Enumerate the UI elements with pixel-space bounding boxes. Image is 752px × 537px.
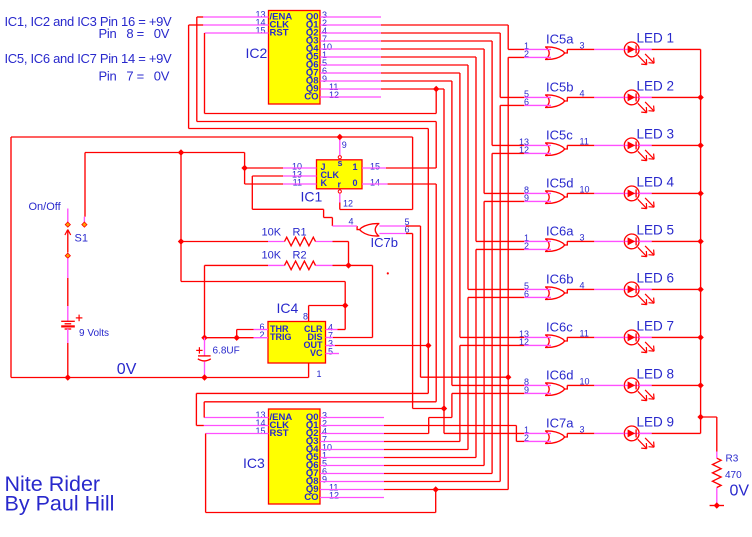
- R1 label 10K: [262, 227, 282, 239]
- wire IC1 J K tie: [245, 153, 317, 185]
- IC5c input pin number 13: [519, 137, 529, 147]
- wire IC4 pin1 ground: [308, 363, 310, 378]
- IC1 pin number 11: [293, 178, 302, 188]
- resistor R1: [285, 237, 316, 246]
- wire IC4 OUT: [326, 345, 429, 347]
- wire IC2 Q0 stub: [320, 16, 381, 18]
- IC2 pin number 14: [256, 18, 266, 28]
- IC6a label: [546, 223, 574, 238]
- IC6d output pin number 10: [580, 376, 590, 386]
- IC2 box: [269, 11, 321, 105]
- junction IC7b pin5 tap: [505, 374, 511, 380]
- wire IC3 RST pin15: [206, 434, 436, 513]
- svg-text:0: 0: [352, 178, 357, 188]
- IC2 pin name Q1: [306, 20, 319, 31]
- IC2 pin name Q8: [306, 76, 319, 87]
- IC3 pin name CLK: [270, 420, 290, 431]
- LED 1 label: [637, 30, 675, 45]
- svg-text:10K: 10K: [262, 227, 282, 239]
- svg-text:1: 1: [352, 162, 357, 172]
- svg-text:IC6b: IC6b: [546, 271, 573, 286]
- wire R2 leads: [205, 265, 373, 337]
- junction rail R3 tap: [697, 414, 703, 420]
- wire clock net vertical: [196, 129, 428, 426]
- IC2 pin number 2: [322, 18, 327, 28]
- svg-text:4: 4: [349, 217, 354, 227]
- or-gate IC5c: [545, 143, 567, 156]
- IC3 label: [243, 455, 265, 471]
- IC4 pin number 8: [303, 312, 308, 322]
- svg-text:R1: R1: [293, 227, 307, 239]
- IC2 pin name Q9: [306, 84, 319, 95]
- IC5a label: [546, 31, 574, 46]
- svg-text:CO: CO: [304, 492, 318, 503]
- IC3 pin name Q7: [306, 468, 319, 479]
- IC7b input pin number 6: [405, 225, 410, 235]
- svg-text:LED 7: LED 7: [637, 318, 675, 333]
- IC6b input pin number 5: [524, 281, 529, 291]
- svg-text:IC5a: IC5a: [546, 31, 574, 46]
- wire switched 9V rail: [84, 153, 244, 223]
- junction rail LED5: [697, 238, 703, 244]
- IC4 pin number 3: [328, 339, 333, 349]
- IC3 pin number 12: [329, 491, 339, 501]
- junction switched rail: [178, 149, 184, 155]
- IC1 pin name J: [321, 162, 326, 172]
- svg-text:IC5, IC6 and IC7 Pin 14 = +9V: IC5, IC6 and IC7 Pin 14 = +9V: [5, 51, 173, 66]
- IC2 pin name CO: [304, 92, 318, 103]
- IC2 pin name Q7: [306, 68, 319, 79]
- IC7b label: [371, 235, 398, 250]
- IC1 pin number 10: [292, 162, 302, 172]
- IC6a output pin number 3: [580, 232, 585, 242]
- R2 label 10K: [262, 250, 282, 262]
- or-gate IC5a: [545, 47, 567, 60]
- IC3 pin number 5: [322, 459, 327, 469]
- wire IC2 Q5 to IC6a: [320, 57, 551, 241]
- battery label 9 Volts: [79, 328, 109, 339]
- IC4 label: [277, 300, 299, 316]
- wire IC1 set pin9: [339, 138, 341, 155]
- wire right supply rail: [700, 49, 702, 433]
- IC6c input pin number 12: [519, 337, 529, 347]
- svg-text:15: 15: [256, 426, 266, 436]
- IC4 box: [268, 322, 326, 364]
- junction rail LED3: [697, 142, 703, 148]
- IC5d input pin number 9: [524, 193, 529, 203]
- IC6c output pin number 11: [580, 328, 589, 338]
- capacitor C1 plates: [198, 356, 211, 361]
- svg-text:IC5d: IC5d: [546, 175, 573, 190]
- junction rail LED4: [697, 190, 703, 196]
- junction rail LED8: [697, 382, 703, 388]
- battery plus sign: [76, 315, 83, 322]
- IC2 pin number 9: [322, 74, 327, 84]
- LED 2 label: [637, 78, 675, 93]
- IC4 pin name THR: [270, 324, 289, 334]
- or-gate IC5b: [545, 95, 567, 108]
- wire 0V bottom rail: [11, 377, 309, 379]
- wire R3 branch: [701, 417, 717, 506]
- LED 6 label: [637, 270, 675, 285]
- wire IC3 Q9 to IC5a: [320, 57, 551, 489]
- wire IC3 Q5 to IC6a: [320, 249, 551, 457]
- IC3 pin number 2: [322, 419, 327, 429]
- IC4 pin name OUT: [304, 340, 324, 350]
- IC3 pin name Q8: [306, 476, 319, 487]
- wire IC2 Q3 to IC5c: [320, 41, 551, 145]
- IC2 pin name Q5: [306, 52, 319, 63]
- or-gate IC6b: [545, 287, 567, 300]
- IC5b output pin number 4: [580, 88, 585, 98]
- wire IC4 VC stub: [326, 353, 340, 355]
- svg-text:LED 6: LED 6: [637, 270, 675, 285]
- junction rail LED7: [697, 334, 703, 340]
- label 0V at R3: [730, 483, 750, 500]
- IC3 pin name Q6: [306, 460, 319, 471]
- svg-text:9: 9: [342, 140, 347, 150]
- IC5c output pin number 11: [580, 136, 589, 146]
- svg-text:R2: R2: [293, 250, 307, 262]
- or-gate IC6d: [545, 383, 567, 396]
- IC2 pin name Q0: [306, 12, 319, 23]
- IC4 pin number 1: [317, 369, 322, 379]
- IC3 pin name Q5: [306, 452, 319, 463]
- wire IC2 /ENA pin13: [197, 17, 436, 168]
- resistor R2: [285, 261, 316, 270]
- R1 label: [293, 227, 307, 239]
- IC4 pin name TRIG: [270, 332, 292, 342]
- wire capacitor top lead: [204, 338, 206, 356]
- LED 2 symbol: [624, 90, 654, 113]
- IC1 pin name CLK: [321, 170, 340, 180]
- IC4 pin number 2: [259, 330, 264, 340]
- svg-text:On/Off: On/Off: [29, 201, 62, 213]
- IC1 set pin bubble: [338, 156, 341, 159]
- LED 3 label: [637, 126, 675, 141]
- svg-text:5: 5: [328, 347, 333, 357]
- svg-text:9: 9: [322, 475, 327, 485]
- junction rail LED6: [697, 286, 703, 292]
- svg-text:RST: RST: [270, 428, 289, 439]
- svg-text:IC1: IC1: [301, 189, 323, 205]
- IC2 pin number 13: [256, 10, 266, 20]
- wire IC7b input pin5: [379, 226, 508, 377]
- IC2 pin number 3: [322, 10, 327, 20]
- label 0V battery: [117, 361, 137, 378]
- or-gate IC6a: [545, 239, 567, 252]
- LED 7 symbol: [624, 330, 654, 353]
- wire IC2 Q7 to IC6c: [320, 73, 551, 337]
- junction IC1 J: [241, 165, 247, 171]
- wire R junction to DIS: [372, 265, 374, 337]
- wire IC1 reset pin12: [340, 137, 413, 210]
- junction IC4 pin8 Vcc: [342, 302, 348, 308]
- wire battery bottom lead: [67, 329, 69, 378]
- IC4 pin number 4: [328, 323, 333, 333]
- svg-text:S1: S1: [75, 233, 88, 245]
- svg-text:14: 14: [370, 178, 380, 188]
- junction THR TRIG: [234, 335, 240, 341]
- IC6c label: [546, 319, 573, 334]
- IC1 pin name 0: [352, 178, 357, 188]
- wire IC3 Q1 to IC7a: [320, 426, 551, 442]
- svg-text:IC7a: IC7a: [546, 415, 574, 430]
- IC4 pin name DIS: [307, 332, 322, 342]
- svg-text:IC6c: IC6c: [546, 319, 573, 334]
- or-gate IC7a: [545, 431, 567, 444]
- LED 6 symbol: [624, 282, 654, 305]
- IC6b output pin number 4: [580, 280, 585, 290]
- IC6c input pin number 13: [519, 329, 529, 339]
- note power pins text line 2: [99, 26, 170, 41]
- wire IC1 CLK pin13: [252, 176, 332, 226]
- wire IC4 DIS: [326, 337, 373, 339]
- IC6d input pin number 8: [524, 377, 529, 387]
- IC5c label: [546, 127, 573, 142]
- R2 label: [293, 250, 307, 262]
- svg-text:12: 12: [329, 90, 339, 100]
- svg-text:0V: 0V: [730, 483, 750, 500]
- svg-text:s: s: [338, 158, 343, 168]
- svg-text:9 Volts: 9 Volts: [79, 328, 109, 339]
- IC2 pin name Q4: [306, 44, 319, 55]
- svg-text:By Paul Hill: By Paul Hill: [5, 492, 115, 516]
- IC7b output pin number 4: [349, 217, 354, 227]
- IC6b input pin number 6: [524, 289, 529, 299]
- wire R1 leads: [181, 242, 349, 266]
- R3 value 470: [725, 470, 742, 481]
- svg-text:IC2: IC2: [246, 45, 268, 61]
- wire LED 6 row: [567, 288, 700, 290]
- IC5c input pin number 12: [519, 145, 529, 155]
- junction TRIG cap R2: [201, 335, 207, 341]
- S1 On/Off stub: [67, 209, 69, 223]
- IC3 pin number 11: [329, 483, 338, 493]
- IC2 pin number 11: [329, 82, 338, 92]
- svg-text:8: 8: [303, 312, 308, 322]
- svg-text:9: 9: [322, 74, 327, 84]
- IC5a input pin number 2: [524, 49, 529, 59]
- IC6a input pin number 1: [524, 233, 529, 243]
- LED 4 symbol: [624, 186, 654, 209]
- svg-text:IC7b: IC7b: [371, 235, 398, 250]
- svg-text:Pin 7 = 0V: Pin 7 = 0V: [99, 69, 170, 84]
- IC2 pin number 7: [322, 34, 327, 44]
- wire IC2 CLK pin14: [189, 25, 429, 129]
- wire LED 2 row: [567, 96, 700, 98]
- wire IC3 Q4 to IC6b: [320, 297, 551, 449]
- wire IC1 Q pin15 to IC2 /ENA: [362, 167, 436, 169]
- junction IC2 Q9 IC7b: [441, 405, 447, 411]
- IC2 pin number 5: [322, 58, 327, 68]
- svg-text:RST: RST: [270, 28, 289, 39]
- IC5d output pin number 10: [580, 184, 590, 194]
- stray dot: [387, 272, 389, 274]
- svg-text:IC4: IC4: [277, 300, 299, 316]
- IC2 pin name Q2: [306, 28, 319, 39]
- IC3 pin number 6: [322, 467, 327, 477]
- wire IC2 Q9 to IC7a: [320, 89, 551, 433]
- IC1 pin name 1: [352, 162, 357, 172]
- LED 1 symbol: [624, 42, 654, 65]
- wire IC3 Q7 to IC5c: [320, 153, 551, 473]
- IC6b label: [546, 271, 573, 286]
- IC5a output pin number 3: [580, 40, 585, 50]
- wire IC2 CO stub: [320, 96, 381, 98]
- svg-text:1: 1: [317, 369, 322, 379]
- capacitor label 6.8UF: [213, 346, 240, 357]
- svg-text:2: 2: [259, 330, 264, 340]
- svg-text:VC: VC: [310, 348, 323, 358]
- or-gate IC5d: [545, 191, 567, 204]
- IC2 pin name Q6: [306, 60, 319, 71]
- junction capacitor 0V: [201, 374, 207, 380]
- wire IC3 Q0 stub: [320, 417, 384, 419]
- IC1 box: [317, 160, 363, 189]
- wire IC3 Q6 to IC5d: [320, 201, 551, 465]
- svg-text:IC5c: IC5c: [546, 127, 573, 142]
- svg-text:Pin 8 = 0V: Pin 8 = 0V: [99, 26, 170, 41]
- or-gate IC7b: [357, 224, 379, 237]
- LED 7 label: [637, 318, 675, 333]
- switch S1 lever: [65, 230, 71, 253]
- wire IC4 pin8 riser: [309, 306, 346, 322]
- junction R1 left: [178, 238, 184, 244]
- IC3 box: [269, 409, 321, 504]
- wire IC3 Q8 to IC5b: [320, 105, 551, 481]
- IC6d input pin number 9: [524, 385, 529, 395]
- svg-text:IC6d: IC6d: [546, 367, 573, 382]
- svg-text:LED 5: LED 5: [637, 222, 675, 237]
- wire IC2 Q6 to IC6b: [320, 65, 551, 289]
- IC1 pin number 9: [342, 140, 347, 150]
- IC2 label: [246, 45, 268, 61]
- R3 label: [726, 454, 739, 465]
- note power pins text line 3: [5, 51, 173, 66]
- IC2 pin number 12: [329, 90, 339, 100]
- IC1 pin number 14: [370, 178, 380, 188]
- LED 8 symbol: [624, 378, 654, 401]
- IC1 pin name r: [338, 180, 342, 190]
- IC3 pin name Q9: [306, 484, 319, 495]
- wire IC7b output pin4: [332, 225, 357, 227]
- note power pins text line 1: [5, 14, 173, 29]
- IC7a input pin number 1: [524, 425, 529, 435]
- svg-text:10K: 10K: [262, 250, 282, 262]
- wire IC4 TRIG: [205, 337, 269, 339]
- IC3 pin number 3: [322, 411, 327, 421]
- svg-text:LED 4: LED 4: [637, 174, 675, 189]
- IC5a input pin number 1: [524, 41, 529, 51]
- junction IC1 set rail: [337, 134, 343, 140]
- IC5d label: [546, 175, 573, 190]
- battery B1 plates: [61, 321, 75, 329]
- wire IC2 Q1 to IC5a: [320, 25, 551, 49]
- wire IC2 RST pin15: [205, 33, 437, 114]
- IC1 pin number 12: [343, 199, 353, 209]
- IC3 pin number 1: [322, 451, 327, 461]
- wire IC2 Q4 to IC5d: [320, 49, 551, 193]
- IC3 pin name Q3: [306, 436, 319, 447]
- junction IC2 Q9 RST: [433, 86, 439, 92]
- svg-text:IC6a: IC6a: [546, 223, 574, 238]
- S1 label: [75, 233, 88, 245]
- IC3 pin name CO: [304, 492, 318, 503]
- wire +9V to R1 R2: [181, 153, 345, 306]
- IC4 pin number 5: [328, 347, 333, 357]
- svg-text:12: 12: [343, 199, 353, 209]
- wire IC7b input pin6: [379, 234, 444, 409]
- IC5d input pin number 8: [524, 185, 529, 195]
- S1 terminal lower: [65, 253, 70, 258]
- IC4 pin number 7: [328, 331, 333, 341]
- IC3 pin number 15: [256, 426, 266, 436]
- capacitor plus sign: [196, 347, 202, 353]
- wire IC3 CO stub: [320, 497, 384, 499]
- IC2 pin number 10: [322, 42, 332, 52]
- IC7a label: [546, 415, 574, 430]
- IC1 pin number 13: [292, 170, 302, 180]
- junction R1 R2 to DIS: [345, 262, 351, 268]
- wire capacitor bottom lead: [204, 362, 206, 378]
- wire IC3 /ENA pin13: [204, 402, 436, 418]
- svg-text:r: r: [338, 180, 342, 190]
- IC3 pin name Q4: [306, 444, 319, 455]
- IC5b input pin number 6: [524, 97, 529, 107]
- IC3 pin number 10: [322, 443, 332, 453]
- IC4 pin name CLR: [304, 324, 323, 334]
- resistor R3: [713, 458, 722, 487]
- LED 4 label: [637, 174, 675, 189]
- IC3 pin name Q2: [306, 428, 319, 439]
- IC7b input pin number 5: [405, 217, 410, 227]
- IC7a input pin number 2: [524, 433, 529, 443]
- wire IC1 Qbar pin14 to IC3 /ENA: [362, 184, 436, 402]
- IC2 pin name Q3: [306, 36, 319, 47]
- svg-text:15: 15: [256, 26, 266, 36]
- svg-text:CO: CO: [304, 92, 318, 103]
- IC2 pin number 4: [322, 26, 327, 36]
- LED 3 symbol: [624, 138, 654, 161]
- S1 label On/Off: [29, 201, 62, 213]
- S1 terminal upper-left: [65, 222, 70, 227]
- LED 8 label: [637, 366, 675, 381]
- svg-text:TRIG: TRIG: [270, 332, 292, 342]
- IC7a output pin number 3: [580, 424, 585, 434]
- IC4 pin number 6: [259, 322, 264, 332]
- LED 5 symbol: [624, 234, 654, 257]
- IC2 pin number 1: [322, 50, 327, 60]
- IC1 pin number 15: [370, 162, 380, 172]
- IC1 label: [301, 189, 323, 205]
- IC3 pin number 9: [322, 475, 327, 485]
- svg-text:IC5b: IC5b: [546, 79, 573, 94]
- IC1 pin name K: [321, 178, 328, 188]
- IC3 pin name Q1: [306, 420, 319, 431]
- title By Paul Hill: [5, 492, 115, 516]
- LED 9 symbol: [624, 426, 654, 449]
- title Nite Rider: [5, 472, 101, 496]
- wire LED 4 row: [567, 192, 700, 194]
- wire LED 3 row: [567, 144, 700, 146]
- wire LED 5 row: [567, 240, 700, 242]
- IC5b label: [546, 79, 573, 94]
- svg-text:470: 470: [725, 470, 742, 481]
- IC3 pin number 7: [322, 435, 327, 445]
- junction rail LED2: [697, 94, 703, 100]
- junction battery 0V: [65, 374, 71, 380]
